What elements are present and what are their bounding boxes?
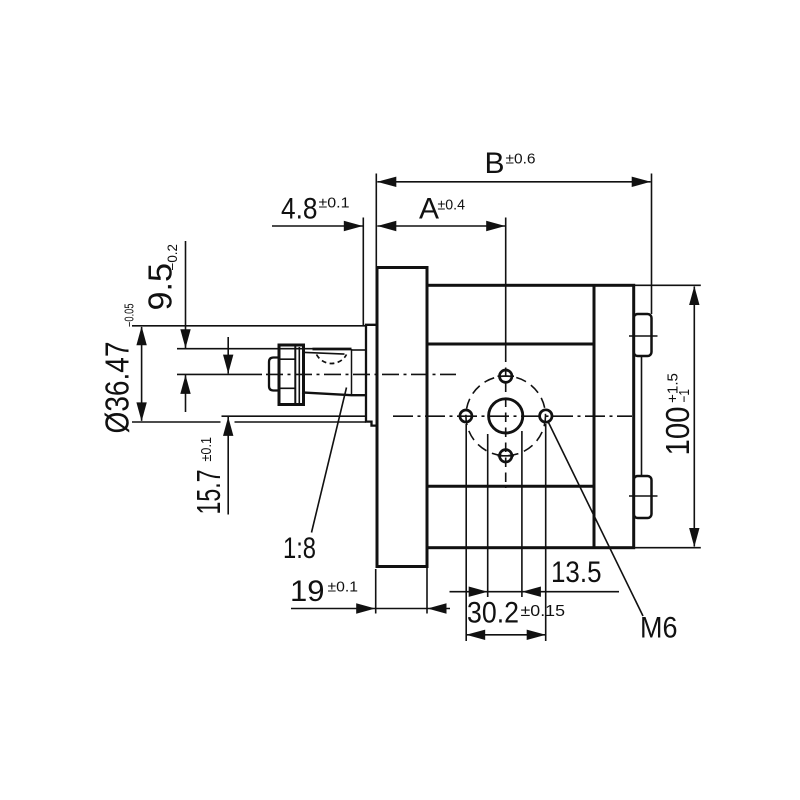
svg-text:B: B xyxy=(485,147,505,180)
rear cover center step edge xyxy=(641,356,643,476)
svg-text:1:8: 1:8 xyxy=(283,532,316,565)
shaft centerline xyxy=(177,373,262,375)
boss bottom extension line xyxy=(132,421,221,423)
shaft key top edge xyxy=(313,348,352,351)
svg-text:Ø36.47: Ø36.47 xyxy=(99,342,136,434)
svg-text:±0.1: ±0.1 xyxy=(319,196,350,212)
svg-text:−0.2: −0.2 xyxy=(165,244,180,271)
mounting flange plate xyxy=(377,268,427,567)
dimension B extension left xyxy=(375,174,377,268)
svg-text:19: 19 xyxy=(290,575,325,608)
right bolt hole M6 xyxy=(540,410,552,422)
dimension 4.8 line xyxy=(272,225,363,227)
left hole extension xyxy=(465,424,467,641)
bottom bolt hole xyxy=(500,450,512,462)
bottom port boss xyxy=(634,476,652,518)
bore right edge extension xyxy=(521,431,523,597)
svg-text:15.7: 15.7 xyxy=(190,470,227,515)
tapered shaft top edge xyxy=(302,352,345,354)
castle nut Q xyxy=(279,345,304,405)
dimension 30.2 line xyxy=(466,634,546,636)
dimension A extension right xyxy=(505,218,507,353)
shaft taper end xyxy=(351,349,353,395)
pilot boss on flange xyxy=(366,325,377,426)
dimension 100 extension bottom xyxy=(634,547,701,549)
pump centerline xyxy=(222,415,367,417)
svg-text:100: 100 xyxy=(659,407,696,456)
bottom port boss center tick xyxy=(629,495,658,497)
svg-text:−1: −1 xyxy=(677,389,693,403)
svg-text:±0.6: ±0.6 xyxy=(506,152,536,168)
bore left edge extension xyxy=(487,434,489,597)
svg-text:M6: M6 xyxy=(640,612,678,645)
tapered shaft bottom edge xyxy=(302,392,367,395)
nut facet line lower xyxy=(279,387,295,389)
dimension 4.8 extension xyxy=(362,218,364,326)
nut hex facet vertical xyxy=(294,345,296,405)
svg-text:4.8: 4.8 xyxy=(281,193,318,226)
dimension 19 extension left xyxy=(375,569,377,614)
internal casting line lower xyxy=(427,485,594,488)
dimension 100 extension top xyxy=(634,284,701,286)
dimension 15.7 line xyxy=(227,337,229,374)
woodruff key seat hidden arc xyxy=(317,355,347,364)
leader 1:8 taper xyxy=(312,388,347,533)
bolt circle dashed xyxy=(466,376,546,456)
dimension A line xyxy=(377,225,505,227)
boss top extension line xyxy=(132,325,366,327)
washer edge xyxy=(298,347,300,403)
svg-text:30.2: 30.2 xyxy=(467,597,519,630)
left bolt hole xyxy=(460,410,472,422)
svg-text:13.5: 13.5 xyxy=(551,556,602,589)
pump body xyxy=(427,285,634,547)
shaft end stud xyxy=(269,358,280,391)
key top extension line xyxy=(177,348,313,350)
internal casting line upper xyxy=(427,343,594,346)
top bolt hole xyxy=(500,370,512,382)
bolt circle vertical centerline xyxy=(505,353,507,489)
leader M6 xyxy=(549,423,644,617)
dimension 100 line xyxy=(693,287,695,547)
svg-text:−0.05: −0.05 xyxy=(123,303,137,327)
svg-text:±0.1: ±0.1 xyxy=(199,437,215,462)
dimension B extension right xyxy=(651,174,653,315)
dimension B line xyxy=(377,181,650,183)
svg-text:A: A xyxy=(419,193,439,226)
svg-text:±0.1: ±0.1 xyxy=(328,580,359,596)
dimension dia36.47 line xyxy=(141,327,143,421)
top port boss center tick xyxy=(629,335,658,337)
dimension 19 line xyxy=(291,608,450,610)
svg-text:±0.15: ±0.15 xyxy=(521,603,566,620)
body/rear-cover separator xyxy=(593,285,596,547)
svg-text:±0.4: ±0.4 xyxy=(438,198,466,214)
dimension 9.5 line xyxy=(185,241,187,348)
central shaft bore circle xyxy=(489,399,523,433)
right hole extension xyxy=(545,424,547,641)
shaft cylindrical top xyxy=(352,349,367,351)
nut facet line upper xyxy=(279,358,295,360)
top port boss xyxy=(634,314,652,356)
dimension 13.5 line xyxy=(450,591,620,593)
dimension 19 extension right xyxy=(426,551,428,614)
